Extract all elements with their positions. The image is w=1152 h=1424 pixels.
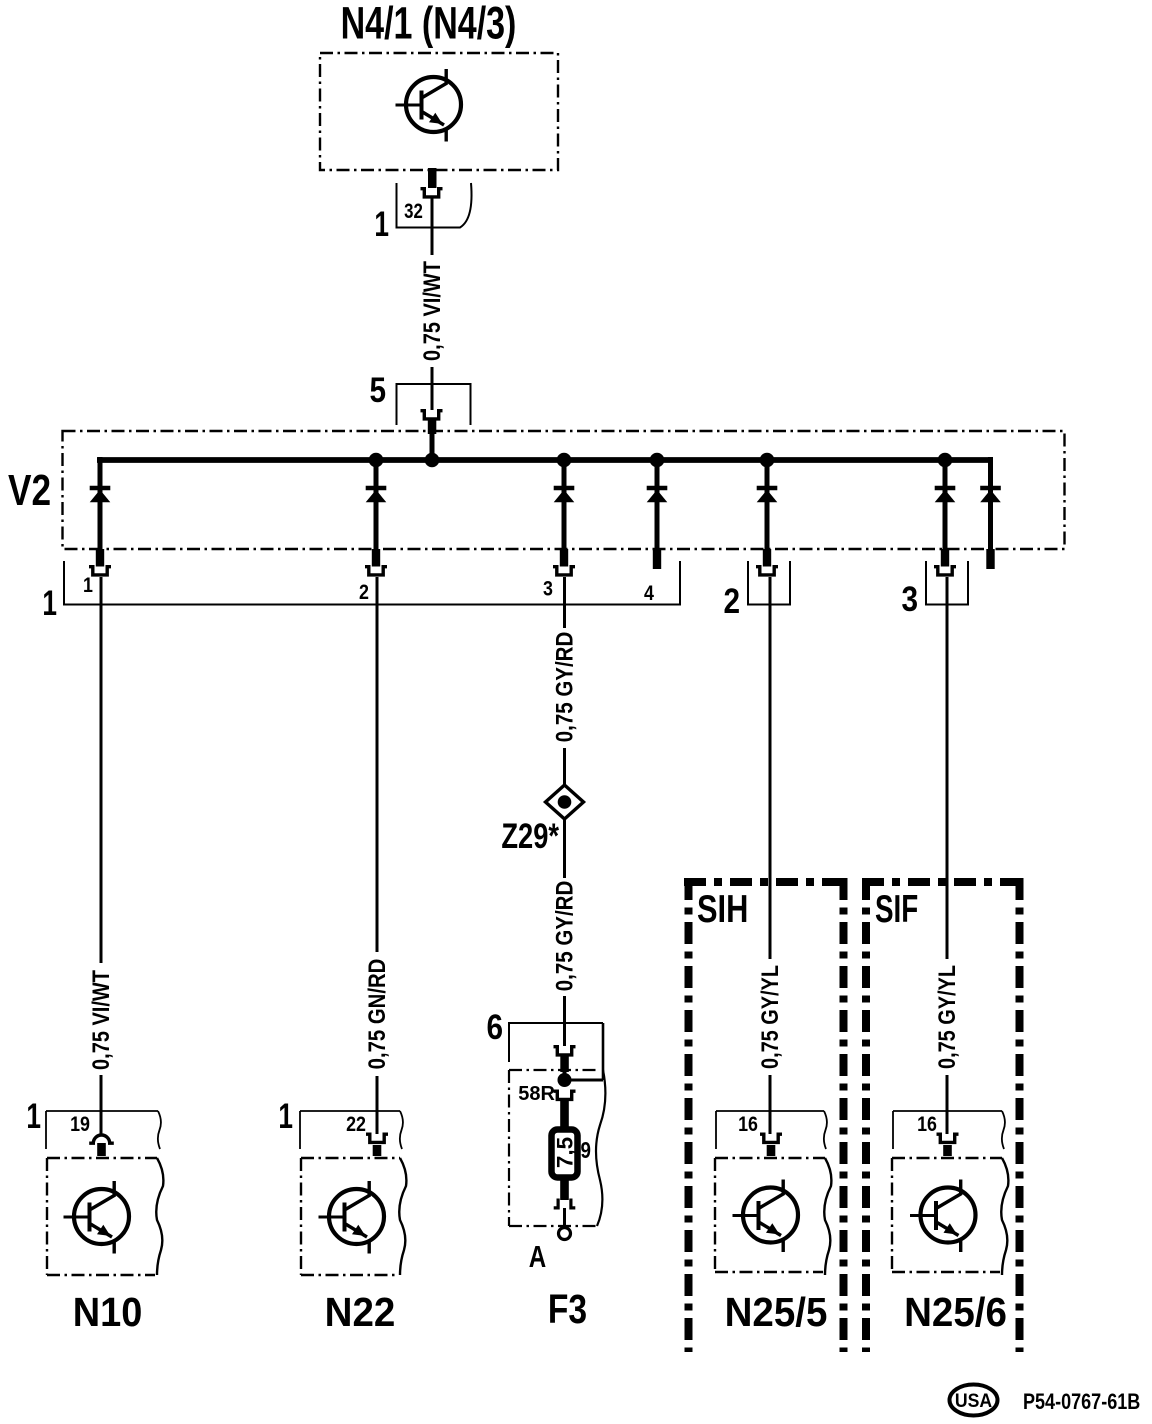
svg-text:1: 1: [278, 1096, 293, 1136]
svg-text:Z29*: Z29*: [501, 817, 559, 856]
svg-text:P54-0767-61B: P54-0767-61B: [1023, 1390, 1140, 1414]
svg-text:N4/1 (N4/3): N4/1 (N4/3): [341, 0, 517, 49]
svg-text:N22: N22: [325, 1290, 396, 1335]
svg-text:3: 3: [901, 580, 918, 619]
svg-text:0,75 GN/RD: 0,75 GN/RD: [363, 959, 390, 1070]
svg-text:19: 19: [70, 1113, 90, 1137]
svg-text:7,5: 7,5: [553, 1137, 578, 1168]
svg-text:4: 4: [644, 582, 654, 606]
svg-text:0,75 GY/RD: 0,75 GY/RD: [551, 632, 578, 742]
svg-text:0,75 GY/RD: 0,75 GY/RD: [551, 881, 578, 991]
svg-text:0,75 GY/YL: 0,75 GY/YL: [933, 965, 960, 1069]
svg-text:N25/6: N25/6: [904, 1290, 1007, 1335]
svg-text:0,75 VI/WT: 0,75 VI/WT: [418, 261, 445, 361]
svg-text:16: 16: [917, 1113, 937, 1137]
svg-text:N10: N10: [73, 1290, 143, 1336]
svg-text:6: 6: [486, 1008, 503, 1047]
svg-text:USA: USA: [955, 1389, 992, 1411]
svg-text:16: 16: [738, 1113, 758, 1137]
svg-text:N25/5: N25/5: [725, 1290, 828, 1335]
svg-text:9: 9: [581, 1137, 592, 1164]
svg-text:1: 1: [83, 574, 93, 598]
svg-text:1: 1: [42, 583, 57, 623]
svg-text:0,75 VI/WT: 0,75 VI/WT: [87, 970, 114, 1070]
svg-text:2: 2: [723, 582, 740, 621]
svg-text:SIF: SIF: [875, 887, 918, 931]
svg-text:SIH: SIH: [697, 888, 748, 931]
svg-text:22: 22: [346, 1113, 366, 1137]
svg-text:1: 1: [26, 1096, 41, 1136]
svg-text:F3: F3: [548, 1286, 587, 1332]
svg-text:V2: V2: [8, 466, 51, 515]
svg-text:32: 32: [404, 200, 423, 223]
svg-text:5: 5: [369, 371, 386, 410]
svg-text:3: 3: [543, 577, 553, 601]
svg-text:0,75 GY/YL: 0,75 GY/YL: [756, 965, 783, 1069]
svg-text:58R: 58R: [518, 1083, 555, 1105]
svg-text:2: 2: [359, 581, 369, 605]
svg-text:A: A: [529, 1239, 546, 1274]
svg-text:1: 1: [374, 204, 389, 244]
